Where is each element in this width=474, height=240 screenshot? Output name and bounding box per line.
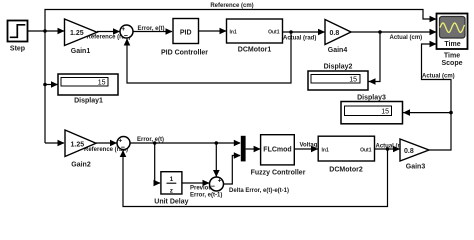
wire Gain4 to Scope input 2 with label Actual (cm) — [351, 29, 437, 41]
gain Gain1 triangle 1.25 — [65, 19, 98, 55]
wire branch left into Display3 — [403, 109, 451, 116]
node junction on Step output at left vertical — [43, 29, 47, 33]
svg-text:Gain2: Gain2 — [71, 162, 91, 169]
gain Gain3 triangle 0.8 — [400, 139, 429, 170]
svg-text:Gain4: Gain4 — [328, 47, 348, 54]
svg-text:−: − — [121, 145, 125, 152]
node junction error line to Sum3 — [215, 141, 219, 145]
wire branch down into Sum3 plus input — [213, 143, 220, 177]
display Display1 showing 15 — [58, 74, 118, 105]
svg-text:Out1: Out1 — [268, 29, 280, 35]
wire Reference (cm): Step junction up and across top to Scope input 1 — [45, 3, 437, 143]
svg-text:15: 15 — [98, 80, 106, 87]
wire Step to Gain1 — [28, 28, 65, 35]
wire branch down and left into Display2 — [369, 32, 381, 85]
svg-text:Fuzzy Controller: Fuzzy Controller — [251, 169, 306, 176]
node junction DCMotor1 output feedback — [289, 30, 293, 34]
source block Step with step icon — [8, 21, 28, 53]
svg-text:+: + — [118, 138, 122, 145]
svg-text:FLCmod: FLCmod — [263, 147, 291, 154]
sum Sum3 circle with plus and minus — [210, 177, 224, 191]
wire feedback down, left, up into Sum2 minus input — [120, 149, 388, 207]
wire PID Controller to DCMotor1 — [199, 28, 227, 35]
svg-text:Actual (cm): Actual (cm) — [390, 35, 423, 41]
wire Sum1 to PID Controller with label Error, e(t) — [133, 26, 173, 35]
svg-text:+: + — [121, 26, 125, 33]
svg-text:Time: Time — [444, 41, 460, 48]
gain Gain4 triangle 0.8 — [325, 20, 351, 55]
wire DCMotor2 to Gain3 with label Actual (rad) — [375, 143, 409, 152]
svg-text:DCMotor1: DCMotor1 — [238, 47, 272, 54]
svg-text:0.8: 0.8 — [330, 30, 340, 37]
sum Sum2 circle with plus and minus — [117, 137, 130, 152]
svg-text:Step: Step — [10, 46, 25, 53]
svg-text:PID Controller: PID Controller — [161, 49, 208, 56]
svg-text:DCMotor2: DCMotor2 — [329, 166, 363, 173]
svg-text:Error, e(t): Error, e(t) — [137, 137, 164, 143]
scope Time Scope with screen and sine wave — [437, 14, 468, 67]
node junction error line to Unit Delay — [153, 141, 157, 145]
svg-text:1.25: 1.25 — [70, 30, 84, 37]
wire branch down and right into Unit Delay input — [154, 143, 161, 186]
svg-text:In1: In1 — [230, 29, 237, 35]
svg-text:15: 15 — [349, 77, 357, 84]
wire Gain3 output right, up, left, up to Scope input 3 with label Actual (cm) — [422, 41, 455, 150]
svg-text:Out1: Out1 — [360, 147, 372, 153]
wire feedback DCMotor1 output down, left, up into Sum1 minus input — [124, 32, 291, 83]
svg-text:1: 1 — [170, 176, 174, 183]
block DCMotor1 with ports In1 Out1 — [227, 19, 283, 54]
block PID Controller — [161, 19, 208, 57]
display Display3 showing 15 — [341, 94, 403, 124]
svg-text:Display3: Display3 — [357, 94, 386, 101]
wire branch to Display1 — [43, 81, 58, 88]
svg-text:+: + — [218, 177, 222, 184]
svg-text:Scope: Scope — [441, 60, 462, 67]
gain Gain2 triangle 1.25 — [65, 130, 96, 169]
wire Sum3 up to Mux input 2 with label Delta Error, e(t)-e(t-1) — [224, 152, 290, 194]
svg-text:Error, e(t-1): Error, e(t-1) — [190, 192, 222, 198]
block FLCmod fuzzy logic controller — [251, 135, 306, 177]
svg-text:Unit Delay: Unit Delay — [154, 198, 188, 205]
svg-text:Gain1: Gain1 — [71, 48, 91, 55]
wire Gain1 to Sum1 with label Reference (rad) — [87, 28, 131, 41]
svg-text:Actual (rad): Actual (rad) — [283, 35, 316, 41]
svg-text:Display2: Display2 — [324, 63, 353, 70]
display Display2 showing 15 — [308, 63, 368, 90]
svg-text:Display1: Display1 — [74, 98, 103, 105]
svg-text:1.25: 1.25 — [71, 142, 85, 149]
svg-text:Time: Time — [444, 53, 460, 60]
block Unit Delay 1/z — [154, 172, 188, 206]
svg-text:Reference (cm): Reference (cm) — [210, 3, 253, 9]
node junction DCMotor2 output feedback — [386, 147, 390, 151]
svg-text:Actual (cm): Actual (cm) — [422, 73, 455, 79]
svg-text:−: − — [124, 33, 128, 40]
wire DCMotor1 to Gain4 with label Actual (rad) — [283, 29, 326, 42]
svg-text:15: 15 — [381, 109, 389, 116]
mux Mux black bar — [241, 136, 246, 162]
svg-text:0.8: 0.8 — [404, 148, 414, 155]
svg-text:Delta Error, e(t)-e(t-1): Delta Error, e(t)-e(t-1) — [229, 188, 289, 194]
svg-text:Error, e(t): Error, e(t) — [138, 26, 165, 32]
wire Gain2 to Sum2 with label Reference (rad) — [84, 140, 128, 153]
wire Fuzzy Controller to DCMotor2 with label Voltage (v) — [294, 142, 329, 152]
wire Sum2 to Mux input 1 with label Error, e(t) — [130, 137, 241, 146]
svg-text:In1: In1 — [322, 147, 329, 153]
node junction Gain3 feedback to Display3 — [449, 111, 453, 115]
wire Mux to Fuzzy Controller — [246, 146, 261, 153]
svg-text:PID: PID — [180, 30, 192, 37]
wire Unit Delay to Sum3 with label Previous Error, e(t-1) — [182, 180, 222, 199]
svg-text:−: − — [211, 184, 215, 191]
sum Sum1 circle with plus and minus — [120, 25, 133, 40]
node junction Gain4 output to Display2 — [378, 30, 382, 34]
block DCMotor2 with ports In1 Out1 — [318, 136, 374, 173]
wire branch to Gain2 — [45, 140, 65, 147]
svg-text:Gain3: Gain3 — [406, 163, 426, 170]
